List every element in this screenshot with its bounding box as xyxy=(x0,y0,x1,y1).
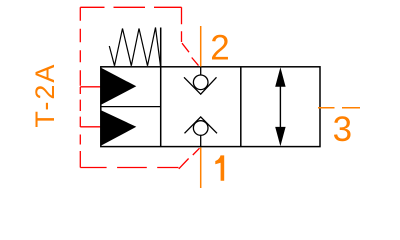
check valve top: ball xyxy=(193,75,208,90)
svg-text:3: 3 xyxy=(333,110,352,149)
check valve bottom: ball xyxy=(193,121,208,136)
cartridge boundary lower diagonal to port 1 (red dashed) xyxy=(179,148,200,169)
check valve top: stem xyxy=(200,67,202,75)
svg-text:T-2A: T-2A xyxy=(30,63,60,128)
port 3 line (orange dashed) xyxy=(318,107,360,109)
valve body outline xyxy=(101,67,320,147)
cartridge boundary top edge (red dashed) xyxy=(80,6,181,8)
port 1 line (orange) xyxy=(200,148,202,189)
cartridge boundary left edge (red dashed) xyxy=(79,7,81,167)
check valve top: seat xyxy=(184,77,217,94)
divider between position 1 and position 2 xyxy=(240,67,242,147)
pilot triangle upper xyxy=(101,68,136,105)
cartridge boundary bottom edge (red dashed) xyxy=(80,167,178,169)
check valve bottom: stem xyxy=(200,135,202,146)
port 2 line (orange) xyxy=(200,26,202,67)
label 1 xyxy=(215,155,224,180)
flow arrow head down xyxy=(275,127,285,146)
flow arrow head up xyxy=(275,67,285,87)
label T-2A (rotated) xyxy=(30,63,60,128)
pilot cell horizontal divider xyxy=(101,106,161,108)
spring xyxy=(109,28,160,67)
cartridge port link lower (red solid) xyxy=(80,126,101,128)
flow arrow shaft xyxy=(279,84,281,130)
label 3 xyxy=(333,110,352,149)
cartridge port link upper (red solid) xyxy=(80,86,101,88)
pilot triangle lower xyxy=(101,110,136,145)
divider between pilot section and position 1 xyxy=(160,28,162,147)
label 2 xyxy=(210,29,229,68)
cartridge boundary upper diagonal to port 2 (red dashed) xyxy=(182,43,199,65)
cartridge boundary right edge (red dashed) xyxy=(181,7,183,42)
check valve bottom: seat xyxy=(185,117,218,133)
svg-text:2: 2 xyxy=(210,29,229,68)
